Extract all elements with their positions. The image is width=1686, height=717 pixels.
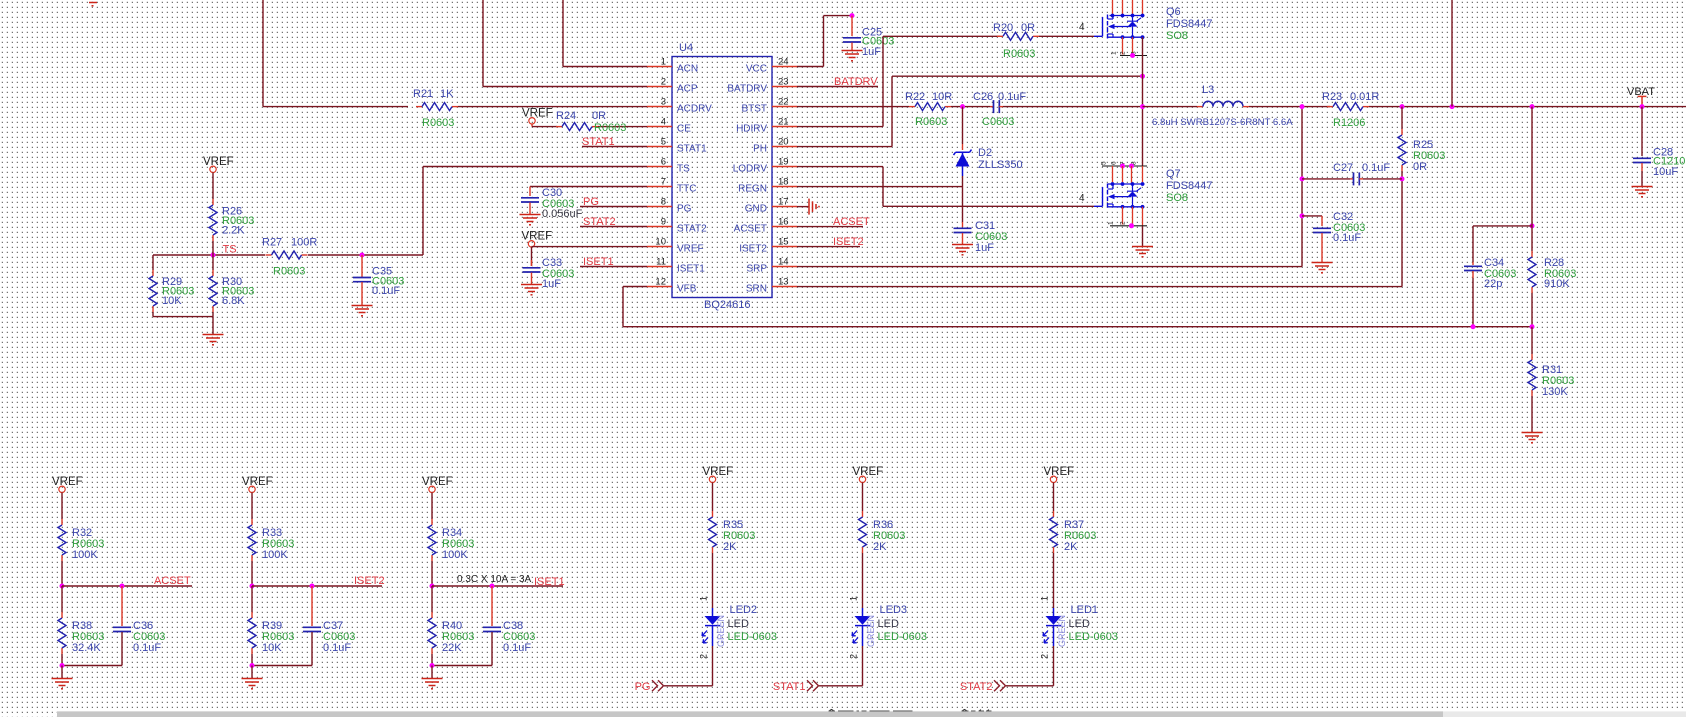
wire R20 to Q6 gate: [1039, 35, 1094, 37]
capacitor C26 0.1uF: [990, 106, 994, 108]
svg-text:VFB: VFB: [677, 283, 697, 294]
svg-text:Q6: Q6: [1166, 6, 1181, 18]
svg-text:R20: R20: [993, 22, 1013, 34]
svg-text:10K: 10K: [162, 295, 182, 307]
svg-text:GREEN: GREEN: [866, 615, 876, 647]
capacitor C28 10uF: [1633, 157, 1651, 159]
svg-text:SO8: SO8: [1166, 192, 1188, 204]
svg-text:VCC: VCC: [746, 63, 767, 74]
svg-text:1: 1: [661, 57, 666, 68]
svg-text:LED-0603: LED-0603: [1069, 631, 1119, 643]
svg-text:13: 13: [778, 277, 789, 288]
U4 pin 7 TTC: [647, 186, 672, 188]
svg-text:ACP: ACP: [677, 83, 698, 94]
resistor R25 0R: [1401, 107, 1403, 129]
wire LED1 cathode: [1053, 646, 1055, 686]
svg-text:R1206: R1206: [1333, 117, 1365, 129]
op-amp U1 - charger IC U4 BQ24616 body: [672, 57, 772, 298]
ground (R40): [422, 678, 443, 680]
capacitor C38 0.1uF: [491, 586, 493, 626]
Q7 drain pin row (pins 5-8): [1102, 165, 1147, 167]
svg-text:C27: C27: [1333, 162, 1353, 174]
U4 pin 8 PG: [647, 206, 672, 208]
U4 pin 21 HDIRV: [772, 126, 797, 128]
U4 pin 13 SRN: [772, 286, 797, 288]
svg-text:SRP: SRP: [746, 263, 767, 274]
node C32 junction: [1300, 213, 1305, 218]
U4 pin 14 SRP: [772, 266, 797, 268]
svg-text:10: 10: [655, 237, 666, 248]
svg-text:VREF: VREF: [853, 466, 884, 478]
svg-text:21: 21: [778, 117, 789, 128]
svg-text:8: 8: [661, 197, 666, 208]
U4 pin 20 PH: [772, 146, 797, 148]
wire ACSET net: [62, 585, 192, 587]
svg-text:L3: L3: [1202, 84, 1214, 96]
svg-text:0R: 0R: [592, 110, 606, 122]
wire LODRV route to Q7 gate: [797, 166, 883, 168]
U4 pin 3 ACDRV: [647, 106, 672, 108]
svg-text:R27: R27: [262, 237, 282, 249]
svg-text:1K: 1K: [440, 88, 454, 100]
svg-text:2: 2: [661, 77, 666, 88]
resistor R29 10K: [152, 255, 154, 270]
ground (C35): [352, 305, 373, 307]
capacitor C27 0.1uF: [1302, 178, 1350, 180]
svg-text:3: 3: [661, 97, 666, 108]
ground (C31): [952, 244, 973, 246]
svg-text:19: 19: [778, 157, 789, 168]
svg-text:9: 9: [661, 217, 666, 228]
svg-text:1: 1: [1108, 221, 1115, 225]
wire STAT1 to pin 5: [582, 146, 647, 148]
resistor R35 2K: [712, 483, 714, 512]
U4 pin 15 ISET2: [772, 246, 797, 248]
svg-text:10uF: 10uF: [1653, 166, 1678, 178]
wire to ground: [212, 317, 214, 334]
LED LED2 GREEN: [712, 608, 714, 616]
svg-text:BATDRV: BATDRV: [727, 83, 767, 94]
wire TS horizontal: [153, 254, 265, 256]
svg-text:REGN: REGN: [738, 183, 767, 194]
transistor Q6 FDS8447 (high side): [1112, 0, 1114, 16]
node Q7 drain junctions: [1120, 164, 1125, 169]
svg-text:CE: CE: [677, 123, 691, 134]
svg-text:ACDRV: ACDRV: [677, 103, 712, 114]
resistor R22 10R: [909, 106, 915, 108]
inductor L3 6.8uH: [1197, 106, 1203, 108]
svg-text:910K: 910K: [1544, 278, 1570, 290]
wire SRP rail: [797, 266, 1302, 268]
svg-text:VREF: VREF: [522, 107, 553, 119]
resistor R32 100K: [61, 493, 63, 520]
svg-text:0.056uF: 0.056uF: [542, 208, 583, 220]
svg-text:FDS8447: FDS8447: [1166, 18, 1212, 30]
svg-text:LED: LED: [728, 618, 749, 630]
svg-text:18: 18: [778, 177, 789, 188]
U4 pin 18 REGN: [772, 186, 797, 188]
svg-text:ACSET: ACSET: [734, 223, 767, 234]
svg-text:2: 2: [699, 654, 709, 659]
svg-text:2: 2: [1120, 51, 1127, 55]
svg-text:100K: 100K: [262, 549, 288, 561]
svg-text:0.1uF: 0.1uF: [323, 642, 351, 654]
svg-text:1uF: 1uF: [862, 46, 881, 58]
svg-text:ISET1: ISET1: [534, 576, 565, 588]
node C27 left junction: [1300, 176, 1305, 181]
svg-text:0R: 0R: [1021, 22, 1035, 34]
svg-text:TS: TS: [677, 163, 690, 174]
svg-text:BTST: BTST: [741, 103, 767, 114]
wire C38 bottom: [432, 665, 492, 667]
capacitor C35 0.1uF: [361, 255, 363, 277]
capacitor C32 0.1uF: [1302, 215, 1322, 217]
svg-text:5: 5: [1101, 161, 1108, 165]
wire LED3 cathode: [862, 646, 864, 686]
U4 pin 12 VFB: [647, 286, 672, 288]
wire REGN to D2 anode: [797, 186, 963, 188]
svg-text:TTC: TTC: [677, 183, 696, 194]
svg-text:PG: PG: [635, 681, 651, 693]
svg-text:R22: R22: [905, 91, 925, 103]
svg-text:D2: D2: [978, 147, 992, 159]
U4 pin 5 STAT1: [647, 146, 672, 148]
capacitor C31 1uF: [962, 222, 964, 227]
U4 pin 2 ACP: [647, 86, 672, 88]
svg-text:VREF: VREF: [52, 476, 83, 488]
svg-text:16: 16: [778, 217, 789, 228]
svg-text:LED-0603: LED-0603: [728, 631, 778, 643]
svg-text:STAT2: STAT2: [960, 681, 993, 693]
wire VCC riser: [797, 66, 824, 68]
node VFB top junction: [1530, 223, 1535, 228]
svg-text:LED2: LED2: [730, 604, 758, 616]
svg-text:VREF: VREF: [203, 156, 234, 168]
node C36 junction: [120, 584, 125, 589]
svg-text:BQ24616: BQ24616: [704, 299, 750, 311]
svg-text:6.8K: 6.8K: [222, 295, 245, 307]
svg-text:1: 1: [699, 596, 709, 601]
resistor R21 1K: [416, 106, 422, 108]
wire C26 to PH node: [1003, 106, 1140, 108]
svg-text:PG: PG: [677, 203, 692, 214]
svg-text:11: 11: [656, 257, 666, 268]
svg-text:100K: 100K: [72, 549, 98, 561]
wire D2 anode to C31: [962, 176, 964, 222]
svg-text:4: 4: [1079, 193, 1085, 204]
partially hidden status text: [829, 711, 836, 712]
svg-text:STAT2: STAT2: [677, 223, 707, 234]
svg-text:GREEN: GREEN: [716, 615, 726, 647]
svg-text:U4: U4: [679, 42, 693, 54]
node R33 junction: [250, 584, 255, 589]
svg-text:100R: 100R: [291, 237, 317, 249]
svg-text:2: 2: [849, 654, 859, 659]
svg-text:24: 24: [778, 57, 789, 68]
resistor R37 2K: [1053, 483, 1055, 512]
svg-text:22K: 22K: [442, 642, 462, 654]
svg-text:VREF: VREF: [242, 476, 273, 488]
wire LED2 cathode: [712, 646, 714, 686]
svg-text:PH: PH: [753, 143, 767, 154]
svg-text:GREEN: GREEN: [1057, 615, 1067, 647]
svg-text:0.3C X 10A = 3A: 0.3C X 10A = 3A: [457, 574, 532, 585]
wire PH node vertical to Q7: [1142, 107, 1144, 166]
node junction x1452: [1450, 104, 1455, 109]
wire L3 to R23: [1249, 106, 1330, 108]
svg-text:ACSET: ACSET: [154, 575, 191, 587]
svg-text:LED: LED: [878, 618, 899, 630]
svg-text:2K: 2K: [1064, 541, 1078, 553]
resistor R27 100R: [266, 254, 272, 256]
svg-text:FDS8447: FDS8447: [1166, 180, 1212, 192]
node BTST/D2 junction: [960, 104, 965, 109]
svg-text:17: 17: [778, 197, 789, 208]
Q7 source pin row (pins 1-3): [1110, 225, 1147, 227]
svg-text:2: 2: [1120, 221, 1127, 225]
node PH junction main: [1140, 104, 1145, 109]
ground (R31): [1522, 432, 1543, 434]
node R28 bottom junction: [1530, 324, 1535, 329]
ground (Q7 source): [1132, 246, 1153, 248]
wire STAT2 pin9: [580, 226, 647, 228]
svg-text:100K: 100K: [442, 549, 468, 561]
svg-text:1uF: 1uF: [975, 242, 994, 254]
U4 pin 4 CE: [647, 126, 672, 128]
svg-text:HDIRV: HDIRV: [736, 123, 767, 134]
svg-text:VREF: VREF: [1044, 466, 1075, 478]
ground (C25): [842, 50, 863, 52]
svg-text:1: 1: [1040, 596, 1050, 601]
U4 pin 24 VCC: [772, 66, 797, 68]
wire PG pin8: [580, 206, 647, 208]
wire SRN rail: [797, 286, 1402, 288]
U4 pin 11 ISET1: [647, 266, 672, 268]
svg-text:7: 7: [661, 177, 666, 188]
svg-text:2.2K: 2.2K: [222, 225, 245, 237]
capacitor C37 0.1uF: [311, 586, 313, 626]
svg-text:R21: R21: [413, 88, 433, 100]
svg-text:0.1uF: 0.1uF: [1333, 232, 1361, 244]
LED LED1 GREEN: [1053, 608, 1055, 616]
resistor R33 100K: [251, 493, 253, 520]
svg-text:STAT1: STAT1: [773, 681, 806, 693]
resistor R28 910K: [1531, 226, 1533, 251]
capacitor C34 22p: [1472, 262, 1474, 265]
wire Q6 source to PH: [1142, 37, 1144, 106]
U4 pin 17 GND: [772, 206, 797, 208]
svg-text:20: 20: [778, 137, 789, 148]
ground (R38): [52, 678, 73, 680]
node C27 right junction: [1400, 176, 1405, 181]
node SRN junction: [1400, 104, 1405, 109]
node R32 junction: [60, 584, 65, 589]
node R40 bottom junction: [430, 663, 435, 668]
node R34 junction: [430, 584, 435, 589]
wire R29/R30 bottom: [153, 316, 213, 318]
svg-text:R0603: R0603: [594, 122, 626, 134]
wire TS pin6 route: [423, 166, 647, 168]
U4 pin 22 BTST: [772, 106, 797, 108]
resistor R38 32.4K: [61, 586, 63, 612]
svg-text:SRN: SRN: [746, 283, 767, 294]
svg-text:VREF: VREF: [422, 476, 453, 488]
svg-text:C0603: C0603: [982, 116, 1014, 128]
svg-text:1: 1: [849, 596, 859, 601]
svg-text:0.1uF: 0.1uF: [503, 642, 531, 654]
ground (C32): [1312, 262, 1333, 264]
resistor R40 22K: [431, 586, 433, 612]
U4 pin 1 ACN: [647, 66, 672, 68]
wire ACN feed from top: [562, 0, 564, 67]
wire VFB bottom rail: [623, 326, 1532, 328]
resistor R24 0R: [532, 126, 557, 128]
svg-text:R0603: R0603: [273, 266, 305, 278]
svg-text:C26: C26: [973, 91, 993, 103]
svg-text:ACN: ACN: [677, 63, 698, 74]
wire C37 bottom: [252, 665, 312, 667]
svg-text:LED1: LED1: [1071, 604, 1099, 616]
svg-text:130K: 130K: [1542, 386, 1568, 398]
wire R23 to VBAT: [1369, 106, 1686, 108]
horizontal scrollbar: [57, 711, 1686, 717]
svg-text:4: 4: [661, 117, 666, 128]
wire C34 branch: [1473, 225, 1532, 227]
node C38 junction: [490, 584, 495, 589]
capacitor C30 0.056uF: [521, 197, 539, 199]
diode D2 ZLLS350 schottky: [962, 107, 964, 144]
Q6 source pin row (pins 1-3): [1120, 55, 1147, 57]
svg-text:ISET2: ISET2: [354, 575, 385, 587]
svg-text:10R: 10R: [932, 91, 952, 103]
wire VBAT divider vertical: [1531, 107, 1533, 226]
svg-text:VREF: VREF: [522, 230, 553, 242]
svg-text:2: 2: [1040, 654, 1050, 659]
node VCC/C25: [850, 13, 855, 18]
svg-text:LED-0603: LED-0603: [878, 631, 928, 643]
U4 pin 6 TS: [647, 166, 672, 168]
ground (C30): [520, 214, 541, 216]
U4 pin 23 BATDRV: [772, 86, 797, 88]
svg-text:LODRV: LODRV: [733, 163, 768, 174]
wire PH to L3: [1143, 106, 1198, 108]
resistor R30 6.8K: [212, 255, 214, 270]
svg-text:LED: LED: [1069, 618, 1090, 630]
svg-text:0.1uF: 0.1uF: [1362, 162, 1390, 174]
wire BTST line: [797, 106, 909, 108]
wire ISET2 pin15: [797, 246, 860, 248]
wire ISET2 net: [252, 585, 382, 587]
resistor R31 130K: [1531, 327, 1533, 354]
svg-text:GND: GND: [745, 203, 767, 214]
node PH junction upper: [1140, 74, 1145, 79]
wire Q7 source to ground: [1142, 226, 1144, 246]
wire VBAT to C28: [1641, 107, 1643, 156]
wire VREF pin10: [531, 247, 533, 266]
wire ACP feed from top: [482, 0, 484, 87]
svg-text:R0603: R0603: [422, 117, 454, 129]
svg-text:4: 4: [1079, 22, 1085, 33]
U4 pin 10 VREF: [647, 246, 672, 248]
node Q7 source junction: [1129, 223, 1134, 228]
ground (GND pin17): [797, 206, 809, 208]
ground (TS divider): [203, 334, 224, 336]
LED LED3 GREEN: [862, 608, 864, 616]
svg-text:R0603: R0603: [1003, 48, 1035, 60]
svg-text:STAT1: STAT1: [677, 143, 707, 154]
wire HDIRV riser: [797, 126, 883, 128]
capacitor C33 1uF: [531, 260, 533, 266]
node C37 junction: [310, 584, 315, 589]
svg-text:22: 22: [778, 97, 789, 108]
node C35 junction: [360, 253, 365, 258]
U4 pin 9 STAT2: [647, 226, 672, 228]
svg-text:LED3: LED3: [880, 604, 908, 616]
svg-text:R23: R23: [1322, 91, 1342, 103]
svg-text:VREF: VREF: [703, 466, 734, 478]
node TS junction: [211, 253, 216, 258]
wire ACSET pin16: [797, 226, 863, 228]
svg-text:0.1uF: 0.1uF: [133, 642, 161, 654]
svg-text:TS: TS: [223, 244, 237, 256]
node R39 bottom junction: [250, 663, 255, 668]
wire C36 bottom: [62, 665, 122, 667]
svg-text:0R: 0R: [1413, 161, 1427, 173]
wire top feed x1452: [1451, 0, 1453, 107]
svg-text:Q7: Q7: [1166, 168, 1181, 180]
resistor R23 0.01R: [1327, 106, 1333, 108]
capacitor C36 0.1uF: [121, 586, 123, 626]
svg-text:1uF: 1uF: [542, 278, 561, 290]
svg-text:12: 12: [655, 277, 666, 288]
node R38 bottom junction: [60, 663, 65, 668]
capacitor C25 1uF: [851, 16, 853, 36]
svg-text:2K: 2K: [873, 541, 887, 553]
svg-text:SO8: SO8: [1166, 30, 1188, 42]
svg-text:VREF: VREF: [677, 243, 704, 254]
svg-text:0.1uF: 0.1uF: [372, 285, 400, 297]
ground (C33): [521, 284, 542, 286]
svg-text:22p: 22p: [1484, 278, 1502, 290]
svg-text:ISET1: ISET1: [677, 263, 705, 274]
svg-text:6: 6: [1111, 161, 1118, 165]
node VFB divider junction: [1530, 104, 1535, 109]
svg-text:0.01R: 0.01R: [1350, 91, 1379, 103]
svg-text:15: 15: [778, 237, 789, 248]
node C34 bottom junction: [1471, 324, 1476, 329]
svg-text:32.4K: 32.4K: [72, 642, 101, 654]
wire ISET1 pin11: [580, 266, 647, 268]
svg-text:ISET2: ISET2: [739, 243, 767, 254]
resistor R39 10K: [251, 586, 253, 612]
svg-text:R24: R24: [556, 110, 576, 122]
resistor R34 100K: [431, 493, 433, 520]
svg-text:5: 5: [661, 137, 666, 148]
resistor R26 2.2K: [212, 173, 214, 200]
svg-text:0.1uF: 0.1uF: [998, 91, 1026, 103]
svg-text:14: 14: [778, 257, 789, 268]
svg-text:ZLLS350: ZLLS350: [978, 159, 1023, 171]
ground fragment top-left (cropped): [89, 2, 97, 4]
U4 pin 19 LODRV: [772, 166, 797, 168]
svg-text:10K: 10K: [262, 642, 282, 654]
wire ACDRV feed from top: [262, 0, 264, 107]
wire PH riser: [797, 146, 892, 148]
wire ISET1 net: [432, 585, 563, 587]
svg-text:1: 1: [1111, 51, 1118, 55]
wire BATDRV pin23: [797, 86, 878, 88]
node Q6 source junction: [1130, 53, 1135, 58]
